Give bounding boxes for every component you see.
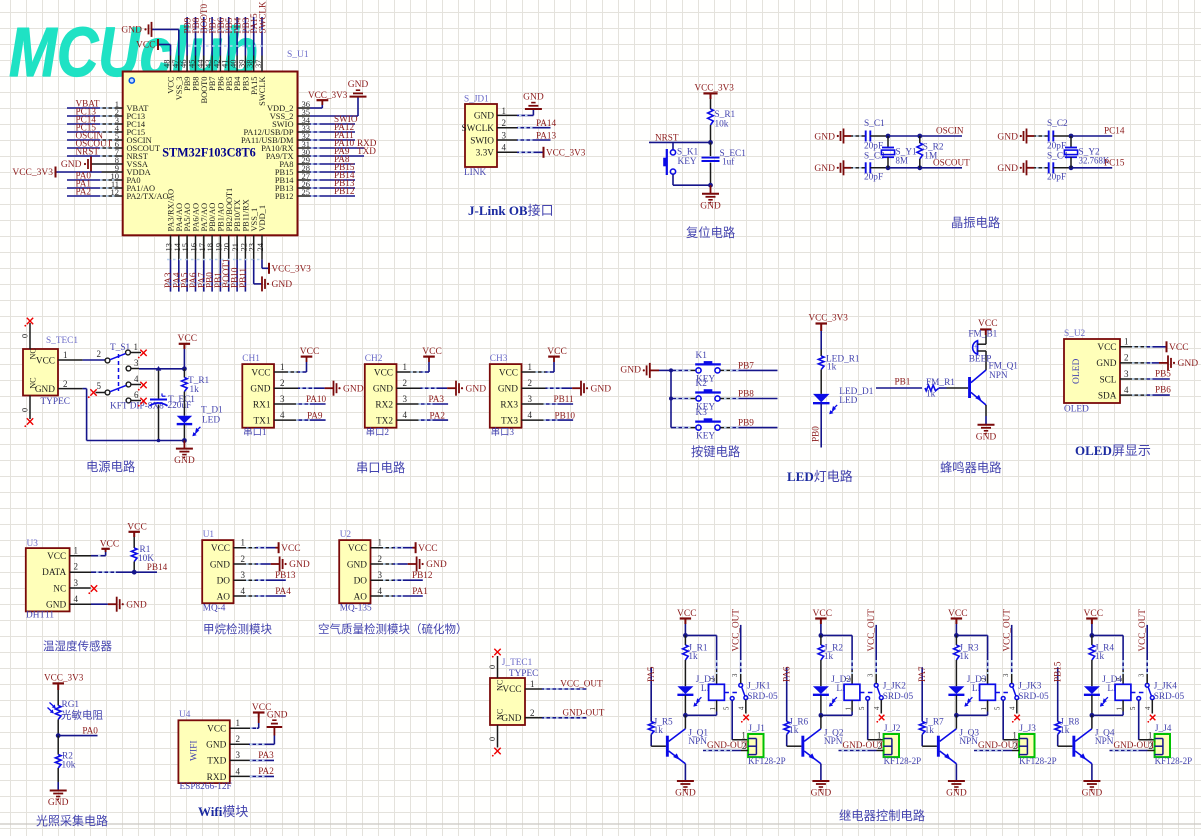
power VCC_3V3 at MCU pin 36 [308, 90, 348, 105]
svg-text:1k: 1k [959, 652, 969, 662]
svg-text:RX1: RX1 [253, 400, 271, 410]
wire S_C2 to PC14 [1053, 134, 1112, 139]
wire U1 pin 2 to GND [234, 563, 280, 565]
svg-text:STM32F103C8T6: STM32F103C8T6 [162, 146, 255, 160]
node OSCOUT [933, 157, 970, 167]
svg-text:GND: GND [675, 789, 696, 799]
svg-text:TXD: TXD [357, 146, 376, 156]
wire S_K1 to bottom node [673, 174, 711, 185]
svg-text:1k: 1k [926, 389, 936, 399]
svg-text:VCC: VCC [36, 356, 55, 366]
wire J_R6 to base of J_Q2 [787, 735, 802, 747]
svg-text:K3: K3 [696, 408, 708, 418]
svg-text:串口1: 串口1 [243, 427, 267, 438]
svg-text:GND: GND [466, 384, 487, 394]
svg-text:T_D1: T_D1 [201, 406, 223, 416]
wire emitter of J_Q1 to GND [684, 764, 686, 781]
J_TEC1 top stub [488, 656, 498, 678]
MCU left pin names [111, 99, 169, 201]
node PB1 [895, 376, 911, 386]
ground at S_C3 [814, 160, 851, 175]
svg-text:PA13: PA13 [536, 130, 556, 140]
svg-text:晶振电路: 晶振电路 [951, 215, 1000, 230]
svg-text:GND: GND [35, 385, 55, 395]
relay pin 4 stub no-connect [1016, 700, 1018, 714]
svg-text:LED: LED [839, 396, 857, 406]
svg-text:4: 4 [502, 143, 507, 153]
relay contact dashes J_JK4 [1131, 692, 1145, 694]
wire junction to relay coil J_JK4 [1092, 635, 1123, 684]
resistor J_R4 [1089, 635, 1114, 661]
node VCC_OUT relay J_R4 [1137, 609, 1147, 652]
title OLED display [1075, 443, 1151, 458]
wire J_R4 to LED J_D4 [1091, 660, 1093, 686]
wire MCU pin 25 PB12 [298, 195, 356, 197]
wire MCU pin 6 OSCOUT [67, 147, 123, 149]
connector S_TEC1 body [23, 336, 78, 407]
svg-text:8M: 8M [896, 155, 908, 165]
svg-text:2: 2 [845, 677, 852, 681]
svg-text:4: 4 [1124, 385, 1129, 395]
svg-text:TX2: TX2 [376, 416, 393, 426]
svg-text:S_C1: S_C1 [864, 119, 885, 129]
power VCC relay J_R2 [813, 609, 833, 624]
MCU S_U1 STM32F103C8T6 body [123, 72, 298, 236]
sensor U1 body [202, 530, 245, 614]
wire bus to K2 [671, 398, 696, 400]
wire MCU pin 47 VSS_3 to GND [152, 29, 179, 55]
svg-text:S_C2: S_C2 [1047, 119, 1068, 129]
label S_C2 texts [1047, 119, 1068, 183]
wire VCC to R1 [133, 537, 135, 548]
svg-text:J_J4: J_J4 [1155, 724, 1172, 734]
svg-text:4: 4 [134, 374, 139, 384]
node PB15 [334, 162, 355, 172]
svg-text:电源电路: 电源电路 [86, 459, 135, 474]
svg-text:KEY: KEY [696, 432, 715, 442]
svg-text:2: 2 [1116, 677, 1123, 681]
svg-text:GND: GND [523, 93, 544, 103]
connector CH2 body [365, 354, 408, 438]
relay coil J_JK1 [685, 677, 724, 715]
svg-text:PA4: PA4 [275, 586, 291, 596]
svg-text:3: 3 [528, 394, 533, 404]
svg-text:GND-OUT: GND-OUT [978, 740, 1020, 750]
wire CH1 pin 1 to VCC [274, 357, 307, 372]
MCU pin 9 VDDA wire [56, 171, 123, 173]
wire U3 pin 4 to GND [70, 603, 117, 605]
node PC14 [76, 114, 97, 124]
svg-text:KEY: KEY [678, 157, 697, 167]
wire CH1 pin 3 PA10 [274, 403, 326, 405]
node PB11 [238, 268, 248, 288]
svg-text:PB13: PB13 [275, 570, 296, 580]
svg-text:NC: NC [53, 584, 66, 594]
terminal block J_J4 [1148, 724, 1192, 766]
node PB13 [275, 570, 296, 580]
svg-text:3: 3 [378, 570, 383, 580]
svg-text:GND: GND [946, 789, 967, 799]
title wifi module [198, 804, 248, 819]
node PA12 [334, 122, 354, 132]
wire MCU pin 23 VSS_1 to GND [254, 260, 262, 284]
node PB5 [224, 17, 234, 33]
svg-text:NPN: NPN [989, 371, 1008, 381]
capacitor S_C1 [866, 131, 871, 142]
node OSCIN [76, 130, 104, 140]
wire MCU pin 36 VDD_2 to VCC_3V3 [298, 101, 323, 108]
svg-text:2: 2 [981, 677, 988, 681]
svg-text:GND: GND [121, 26, 142, 36]
ground relay J_R3 [946, 781, 967, 799]
wire collector of J_Q2 [820, 715, 822, 728]
wire relay pin 5 to J_J2 pin 1 [868, 700, 884, 739]
wire input PA7 to J_R7 [921, 667, 923, 721]
node PB0 [205, 272, 215, 288]
svg-text:J_J3: J_J3 [1019, 724, 1036, 734]
svg-text:PB6: PB6 [1155, 385, 1171, 395]
svg-text:GND-OUT: GND-OUT [843, 740, 885, 750]
node BOOT1 [221, 258, 231, 288]
wire U4 pin 1 to VCC [230, 718, 259, 729]
node PA9 [334, 146, 376, 156]
title crystal circuit [951, 215, 1000, 230]
svg-text:复位电路: 复位电路 [686, 225, 735, 240]
svg-text:GND: GND [700, 201, 721, 211]
svg-text:VCC: VCC [348, 544, 367, 554]
svg-text:3: 3 [134, 358, 139, 368]
photoresistor RG1 [48, 700, 104, 722]
relay coil J_JK4 [1092, 677, 1131, 715]
svg-text:串口2: 串口2 [366, 427, 390, 438]
svg-text:VCC_3V3: VCC_3V3 [546, 148, 586, 158]
node PA3 [258, 750, 274, 760]
svg-text:SDA: SDA [1098, 391, 1117, 401]
svg-text:4: 4 [874, 706, 881, 710]
ground at U1 [280, 557, 310, 572]
wire MCU pin 29 PA8 [298, 163, 356, 165]
wire FM_Q1 emitter to GND [985, 405, 987, 425]
wire LED to lower junction J_R1 [683, 695, 688, 717]
wire S_C2 left [1034, 135, 1049, 137]
svg-text:J_J1: J_J1 [748, 724, 765, 734]
node PC14 [1104, 125, 1125, 135]
relay coil J_JK2 [821, 677, 860, 715]
relay switch J_JK1 [724, 673, 778, 710]
transistor FM_Q1 [968, 362, 1018, 406]
wire U1 pin 1 to VCC [234, 547, 279, 549]
svg-text:3: 3 [502, 130, 507, 140]
svg-text:PA10: PA10 [306, 394, 326, 404]
svg-text:OLED: OLED [1072, 359, 1082, 384]
no-connect X relay J_JK1 pin 4 [741, 715, 749, 723]
MCU top pin stubs [171, 56, 263, 72]
svg-text:TYPEC: TYPEC [41, 397, 70, 407]
svg-text:VCC_3V3: VCC_3V3 [272, 264, 312, 274]
svg-text:S_U2: S_U2 [1064, 329, 1086, 339]
svg-text:U3: U3 [27, 539, 39, 549]
connector CH1 body [242, 354, 285, 438]
svg-text:VCC: VCC [978, 319, 998, 329]
svg-text:VCC_OUT: VCC_OUT [1137, 609, 1147, 652]
wire junction to relay coil J_JK3 [956, 635, 987, 684]
svg-text:VCC: VCC [211, 544, 230, 554]
svg-text:温湿度传感器: 温湿度传感器 [43, 639, 112, 653]
title air quality module [318, 622, 468, 636]
wire MCU pin 10 PA0 [67, 179, 123, 181]
wire VCC to junction J_R3 [954, 624, 959, 638]
svg-text:GND: GND [814, 164, 835, 174]
svg-text:3: 3 [1139, 673, 1146, 677]
node PB1 [213, 272, 223, 288]
svg-text:VCC: VCC [100, 540, 120, 550]
svg-text:4: 4 [738, 706, 745, 710]
relay contact dashes J_JK1 [724, 692, 738, 694]
node VCC_OUT [560, 679, 603, 689]
wire MCU bottom PB10 [236, 260, 238, 292]
svg-text:PB0: PB0 [810, 426, 820, 442]
svg-text:PA2/TX/AO: PA2/TX/AO [127, 192, 169, 201]
svg-text:4: 4 [378, 586, 383, 596]
svg-text:甲烷检测模块: 甲烷检测模块 [203, 622, 272, 636]
wire S_JD1 pin 2 PA14 [497, 127, 551, 129]
power VCC at U2 [416, 542, 438, 554]
svg-text:5: 5 [1130, 706, 1137, 710]
node GND-OUT relay J_R3 [978, 740, 1020, 750]
svg-text:0: 0 [21, 334, 30, 338]
svg-text:RX3: RX3 [500, 400, 518, 410]
power VCC at U3 [100, 540, 120, 553]
svg-text:PA3: PA3 [258, 750, 274, 760]
T_S1 pin3 wire to node [131, 366, 187, 371]
node PB6 [1155, 385, 1171, 395]
svg-text:PB7: PB7 [738, 360, 754, 370]
ground buzzer [976, 425, 997, 443]
wire PB1 to FM_R1 [876, 387, 922, 389]
svg-text:KF128-2P: KF128-2P [748, 756, 786, 766]
no-connect X T_S1 pin6 [138, 398, 147, 407]
svg-text:VCC: VCC [502, 685, 521, 695]
svg-text:SWCLK: SWCLK [257, 1, 267, 34]
svg-text:CH1: CH1 [242, 354, 260, 364]
wire MCU bottom PB11 [244, 260, 246, 292]
svg-text:2: 2 [280, 378, 285, 388]
svg-text:3: 3 [732, 673, 739, 677]
svg-text:VCC: VCC [300, 347, 320, 357]
svg-text:1k: 1k [654, 726, 664, 736]
svg-text:K2: K2 [696, 379, 708, 389]
wire S_C4 left [1034, 167, 1049, 169]
svg-text:1: 1 [530, 679, 535, 689]
wire U3 pin 1 to VCC [70, 549, 106, 556]
svg-text:NRST: NRST [655, 133, 679, 143]
key K1 [695, 351, 721, 384]
svg-text:GND-OUT: GND-OUT [1114, 740, 1156, 750]
node VCC_OUT relay J_R3 [1002, 609, 1012, 652]
wire S_C4 to PC15 [1053, 165, 1112, 170]
wire CH3 pin 2 to GND [522, 387, 581, 389]
svg-text:SWCLK: SWCLK [258, 77, 267, 106]
svg-text:PB5: PB5 [1155, 369, 1171, 379]
resistor R2 [55, 751, 75, 770]
svg-text:VCC: VCC [251, 368, 270, 378]
LED J_D4 [1084, 675, 1126, 707]
node PB10 [555, 410, 576, 420]
node PB10 [230, 267, 240, 288]
svg-text:VCC: VCC [178, 334, 198, 344]
wire MCU pin 7 NRST [67, 155, 123, 157]
svg-text:NPN: NPN [959, 737, 978, 747]
key S_K1 [663, 148, 698, 176]
wire S_R1 to NRST node [710, 125, 712, 142]
node PA2 [430, 410, 446, 420]
svg-text:0: 0 [21, 408, 30, 412]
svg-text:10k: 10k [715, 120, 729, 130]
wire MCU bottom PA7 [203, 260, 205, 292]
relay pin 4 stub no-connect [1151, 700, 1153, 714]
wire GND-OUT to J_J1 pin 2 [703, 750, 748, 752]
svg-text:4: 4 [528, 410, 533, 420]
no-connect X T_S1 pin1 [138, 350, 147, 359]
wire NRST to key S_K1 [672, 142, 674, 149]
resistor J_R3 [954, 635, 979, 661]
node PA10 [334, 138, 377, 148]
wire GND-OUT to J_J4 pin 2 [1110, 750, 1155, 752]
svg-text:VCC: VCC [207, 725, 226, 735]
resistor J_R5 [648, 718, 673, 736]
svg-text:S_K1: S_K1 [677, 148, 699, 158]
svg-text:1k: 1k [1060, 726, 1070, 736]
svg-text:PB9: PB9 [738, 418, 754, 428]
node PB6 [216, 17, 226, 33]
svg-text:6: 6 [134, 390, 139, 400]
wire U4 pin 2 to GND [230, 736, 275, 745]
svg-text:3: 3 [1003, 673, 1010, 677]
ground power circuit [174, 449, 195, 467]
svg-text:SWIO: SWIO [470, 136, 494, 146]
svg-text:CH2: CH2 [365, 354, 383, 364]
no-connect X relay J_JK4 pin 4 [1147, 715, 1155, 723]
switch T_S1 [97, 342, 165, 412]
grid snap marks on net wires [96, 108, 1154, 776]
svg-text:RXD: RXD [207, 773, 227, 783]
svg-text:PB15: PB15 [1053, 661, 1063, 682]
LED LED_D1 [813, 387, 874, 414]
node PB15 [1053, 661, 1063, 682]
node PA14 [536, 118, 556, 128]
title methane detect module [203, 622, 272, 636]
svg-text:DHT11: DHT11 [26, 611, 54, 621]
sensor U3 DHT11 body [26, 539, 79, 621]
svg-text:PB11: PB11 [238, 268, 248, 288]
wire VCC_3V3 to RG1 [57, 690, 59, 706]
resistor LED_R1 [818, 355, 860, 373]
transistor J_Q1 [666, 728, 708, 763]
node PA3 [429, 394, 445, 404]
wire relay pin 5 to J_J1 pin 1 [732, 700, 748, 739]
node NRST [76, 146, 100, 156]
node GND-OUT [563, 708, 605, 718]
wire S_C3 to OSCOUT [870, 165, 962, 170]
capacitor T_EC1 [150, 371, 196, 443]
svg-text:GND: GND [997, 164, 1018, 174]
power VCC at CH1 [300, 347, 320, 357]
wire J_R5 to base of J_Q1 [651, 735, 666, 747]
svg-text:GND: GND [267, 710, 288, 720]
svg-text:GND: GND [426, 560, 447, 570]
ground at MCU pin 23 [262, 276, 292, 291]
svg-text:1: 1 [710, 707, 717, 710]
wire collector of J_Q4 [1091, 715, 1093, 728]
T_S1 pin6 stub [131, 400, 141, 402]
svg-text:VCC: VCC [47, 552, 66, 562]
wire node to R2 [57, 736, 59, 755]
wire VCC to junction J_R1 [683, 624, 688, 638]
key K2 [695, 379, 721, 412]
title reset circuit [686, 225, 735, 240]
svg-text:1: 1 [403, 362, 408, 372]
ground light sensor [48, 791, 69, 809]
wire MCU bottom PA3 [170, 260, 172, 292]
node BOOT0 [199, 3, 209, 33]
wire U2 pin 2 to GND [371, 563, 417, 565]
svg-text:1: 1 [63, 350, 68, 360]
svg-text:K1: K1 [696, 351, 708, 361]
node PB5 [1155, 369, 1171, 379]
wire MCU top PB7 [211, 17, 213, 56]
wire MCU pin 31 PA10 [298, 147, 365, 149]
ground at MCU pin 8 [61, 157, 91, 172]
wire S_U2 pin 2 to GND [1120, 362, 1168, 364]
node PB9 [183, 17, 193, 33]
wire collector of J_Q1 [684, 715, 686, 728]
wire MCU top PB4 [236, 17, 238, 56]
terminal block J_J2 [877, 724, 921, 766]
power VCC at U1 [279, 542, 301, 554]
wire R1 to DATA [133, 562, 135, 573]
capacitor S_C3 [866, 162, 871, 173]
node PA9 [307, 410, 323, 420]
wire MCU pin 24 VDD_1 to VCC_3V3 [262, 260, 269, 269]
wire MCU pin 11 PA1/AO [67, 187, 123, 189]
svg-text:20pF: 20pF [864, 142, 883, 152]
svg-text:PA2: PA2 [76, 186, 92, 196]
wire MCU top PB6 [219, 17, 221, 56]
ground at U3 [117, 597, 147, 612]
svg-text:串口3: 串口3 [491, 427, 515, 438]
svg-text:1: 1 [502, 106, 507, 116]
svg-text:AO: AO [354, 592, 368, 602]
ground relay J_R1 [675, 781, 696, 799]
wire junction to relay coil J_JK1 [685, 635, 716, 684]
wire U4 pin 3 PA3 [230, 759, 274, 761]
node PB7 [208, 17, 218, 33]
wire MCU pin 32 PA11 [298, 139, 356, 141]
svg-text:PA14: PA14 [536, 118, 556, 128]
node PB0 [810, 426, 820, 442]
node PB14 [147, 562, 168, 572]
no-connect X J_TEC1 top [492, 649, 501, 658]
power VCC at CH2 [422, 347, 442, 357]
svg-text:VCC: VCC [499, 368, 518, 378]
svg-text:PA3: PA3 [429, 394, 445, 404]
ground relay J_R2 [811, 781, 832, 799]
ground at S_JD1 pin 1 [523, 93, 544, 110]
grid snap marks near MCU bottom [167, 31, 265, 284]
svg-text:MQ-4: MQ-4 [203, 604, 226, 614]
svg-text:GND-OUT: GND-OUT [707, 740, 749, 750]
power VCC relay J_R4 [1084, 609, 1104, 624]
